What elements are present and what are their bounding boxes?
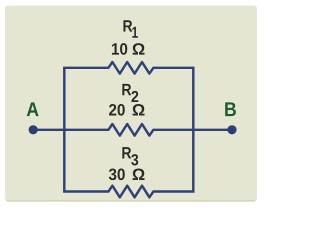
value 20 bbox=[109, 104, 116, 116]
label R2 subscript 2 bbox=[131, 91, 138, 102]
value 10 bbox=[112, 43, 119, 54]
wire left vertical bbox=[63, 68, 65, 192]
value R3 ohm symbol bbox=[133, 168, 145, 180]
node label A bbox=[27, 102, 39, 116]
value 30 bbox=[109, 168, 117, 180]
node B dot bbox=[227, 125, 236, 134]
label R1 bbox=[123, 20, 132, 31]
label R2 bbox=[122, 84, 131, 95]
label R3 subscript 3 bbox=[131, 154, 138, 165]
node A dot bbox=[29, 125, 38, 134]
panel background bbox=[5, 6, 257, 202]
label R1 subscript 1 bbox=[132, 27, 138, 38]
resistor R2 branch wire + zigzag bbox=[33, 124, 232, 136]
resistor R1 branch wire + zigzag bbox=[63, 62, 194, 74]
label R3 bbox=[122, 147, 131, 158]
value R1 ohm symbol bbox=[133, 43, 145, 55]
node label B bbox=[225, 102, 236, 116]
resistor R3 branch wire + zigzag bbox=[63, 186, 194, 198]
panel bottom edge line bbox=[7, 200, 255, 202]
wire right vertical bbox=[192, 68, 194, 192]
value R2 ohm symbol bbox=[133, 104, 145, 116]
